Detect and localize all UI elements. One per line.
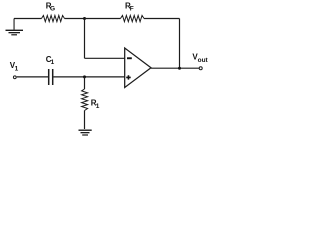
svg-text:1: 1 <box>96 103 100 110</box>
wire C1 to noninverting input <box>53 76 125 78</box>
ground (top-left) <box>6 19 24 36</box>
node B (junction dot) <box>83 75 86 78</box>
wire node A to RF <box>85 18 121 20</box>
svg-text:1: 1 <box>15 66 19 73</box>
svg-text:out: out <box>198 57 209 64</box>
resistor RF <box>121 15 145 21</box>
svg-text:F: F <box>130 5 134 12</box>
ground (bottom) <box>79 130 92 136</box>
op-amp U1 <box>125 48 151 88</box>
wire RF to feedback corner <box>144 18 180 20</box>
op-amp plus pin mark <box>126 75 131 79</box>
label RG <box>46 2 55 13</box>
node C (output junction dot) <box>178 67 181 70</box>
terminal Vout (open circle) <box>199 67 202 70</box>
wire V1 to C1 <box>17 76 48 78</box>
label V1 <box>10 61 19 73</box>
wire R1 to ground <box>84 111 86 130</box>
node A (junction dot) <box>83 17 86 20</box>
svg-text:1: 1 <box>51 59 55 66</box>
wire node A down <box>84 19 86 59</box>
wire op-amp output <box>151 67 199 69</box>
wire node B down to R1 <box>84 77 86 89</box>
terminal V1 (open circle) <box>13 76 16 79</box>
label R1 <box>91 99 100 110</box>
resistor R1 (vertical) <box>82 89 88 111</box>
wire ground to RG <box>14 18 42 20</box>
label C1 <box>46 55 55 66</box>
resistor RG <box>42 15 65 21</box>
wire RG to node A <box>65 18 85 20</box>
capacitor C1 <box>49 69 53 85</box>
label RF <box>125 2 134 13</box>
wire feedback vertical <box>179 19 181 69</box>
label Vout <box>192 53 208 65</box>
svg-text:G: G <box>50 6 55 13</box>
wire to inverting input <box>85 57 126 59</box>
op-amp minus pin mark <box>127 57 132 59</box>
